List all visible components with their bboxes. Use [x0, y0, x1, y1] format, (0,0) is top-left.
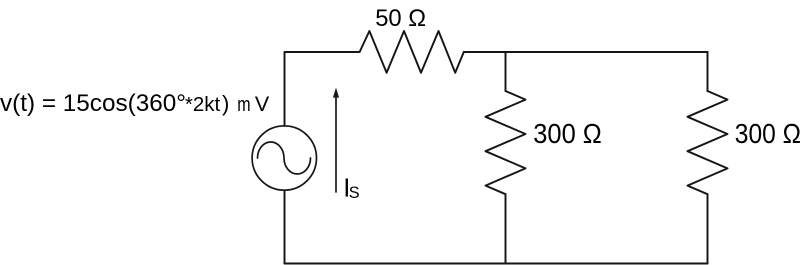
svg-text:50 Ω: 50 Ω [375, 5, 426, 32]
svg-text:m: m [237, 93, 250, 115]
resistor R1 50 ohm (horizontal zigzag) [360, 31, 464, 73]
current arrow Is (head) [333, 88, 339, 98]
svg-text:S: S [349, 184, 360, 202]
svg-text:): ) [222, 91, 229, 116]
svg-text:300 Ω: 300 Ω [735, 118, 801, 150]
wire: right branch bottom stub [707, 194, 709, 263]
wire: source bottom lead [284, 191, 286, 264]
wire: top rail from R1 to top-right corner [464, 51, 708, 53]
wire: middle branch bottom stub [505, 194, 507, 263]
resistor R3 300 ohm (right vertical zigzag) [688, 91, 728, 194]
svg-text:*2kt: *2kt [185, 93, 221, 116]
wire: right branch top stub [707, 52, 709, 91]
resistor R2 300 ohm (middle vertical zigzag) [486, 91, 526, 194]
wire: source top lead and top-left rail corner [285, 52, 360, 126]
AC voltage source V1 (circle) [252, 126, 316, 190]
wire: bottom rail [285, 263, 708, 265]
wire: middle branch top stub [505, 52, 507, 91]
AC source sine wave [258, 142, 311, 174]
current arrow Is (shaft) [335, 97, 337, 192]
svg-text:v(t) = 15cos(360°: v(t) = 15cos(360° [0, 90, 186, 117]
svg-text:V: V [255, 92, 270, 116]
svg-text:300 Ω: 300 Ω [533, 118, 601, 149]
